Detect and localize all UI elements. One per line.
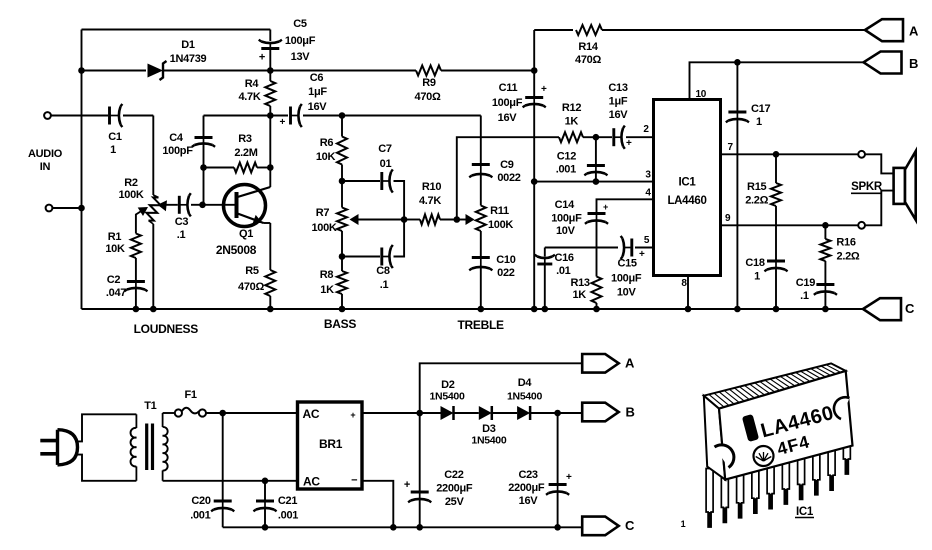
wire R7 to C8 node [341, 231, 343, 257]
svg-text:3: 3 [645, 170, 651, 181]
svg-text:R11: R11 [490, 205, 509, 217]
svg-text:4.7K: 4.7K [238, 91, 260, 103]
wire to R10 [404, 219, 420, 221]
wire C16 to bus [544, 264, 546, 309]
IC package pin 6 [782, 453, 789, 504]
capacitor C15 100uF 10V [624, 247, 632, 249]
wire C11 top [533, 30, 535, 96]
node BR1 minus junction [390, 524, 397, 531]
svg-text:5: 5 [644, 235, 650, 246]
wire R11 wiper [457, 219, 472, 221]
wire R2 loudness tap [136, 209, 145, 218]
capacitor C21 .001 [264, 501, 266, 509]
svg-text:10V: 10V [617, 287, 637, 299]
node rail3/R6 junction [339, 112, 346, 119]
svg-text:+: + [603, 202, 608, 212]
svg-text:R15: R15 [747, 181, 766, 193]
wire speaker bottom lead [865, 191, 894, 226]
wire R8 to bus [341, 294, 343, 309]
svg-text:1K: 1K [572, 289, 586, 301]
IC package right notch [834, 397, 850, 419]
svg-text:1: 1 [110, 144, 116, 156]
transformer T1 core [145, 424, 148, 471]
svg-text:C17: C17 [751, 103, 770, 115]
svg-text:C15: C15 [617, 258, 636, 270]
svg-text:+: + [566, 472, 572, 483]
node AUDIO IN top terminal [44, 112, 51, 119]
wire pin9 node to R16 [824, 225, 826, 239]
svg-text:1: 1 [754, 271, 760, 283]
svg-text:01: 01 [380, 158, 392, 170]
svg-text:R14: R14 [578, 41, 598, 53]
node output arrow B bottom [582, 403, 619, 422]
node R8/bus junction [339, 306, 346, 313]
capacitor C5 100uF 13V [269, 43, 271, 49]
capacitor C16 .01 [544, 258, 546, 265]
wire R13 to bus [596, 303, 598, 309]
svg-text:+: + [259, 52, 265, 64]
svg-text:100K: 100K [488, 219, 513, 231]
node rail2/C11 junction [531, 67, 538, 74]
transistor Q1 emitter arrow [252, 215, 262, 224]
svg-text:C20: C20 [191, 495, 210, 507]
wire R2 bottom to bus [152, 224, 154, 309]
svg-text:8: 8 [681, 278, 687, 289]
wire C22 to bottom rail [419, 500, 421, 528]
node speaker terminal top [858, 151, 865, 158]
svg-text:IC1: IC1 [679, 177, 697, 189]
svg-text:AC: AC [303, 407, 320, 421]
wire down to R2 [152, 116, 154, 196]
svg-text:R4: R4 [245, 78, 260, 90]
wire rail3 down to C4 [203, 116, 205, 137]
svg-text:C7: C7 [378, 143, 392, 155]
wire down to bus [533, 182, 535, 309]
svg-text:.1: .1 [380, 279, 389, 291]
capacitor C23 2200uF 16V [557, 485, 559, 493]
node AUDIO IN bottom terminal [46, 205, 53, 212]
node C23/bottom rail junction [554, 524, 561, 531]
node base junction [199, 202, 206, 209]
IC package pin 1 [706, 469, 713, 528]
node R3/collector junction [267, 164, 274, 171]
node C16/bus junction [542, 306, 549, 313]
wire C13 to IC pin 2 [626, 136, 654, 138]
wire D4 to arrow B [530, 412, 582, 414]
wire tap to R1 [135, 218, 137, 234]
svg-text:C: C [625, 518, 635, 533]
svg-text:F1: F1 [184, 389, 196, 401]
node R7 wiper arrow [350, 214, 359, 225]
wire rail3 right part [303, 115, 481, 117]
wire R10 to node [440, 219, 457, 221]
node rail2 left junction [78, 67, 85, 74]
wire node down to C22 [419, 413, 421, 491]
resistor R1 10K [131, 234, 141, 259]
resistor R5 470ohm [265, 270, 275, 296]
node R11 wiper arrow [466, 214, 475, 225]
capacitor C2 .047 [135, 282, 137, 289]
svg-text:100μF: 100μF [611, 273, 642, 285]
node C22/bottom rail junction [416, 524, 423, 531]
svg-text:100K: 100K [118, 189, 143, 201]
node speaker terminal bottom [858, 222, 865, 229]
IC package pin 10 [843, 441, 850, 474]
node input ground junction [78, 205, 85, 212]
svg-text:R2: R2 [124, 177, 138, 189]
svg-text:Q1: Q1 [239, 228, 253, 240]
resistor R3 2.2M [234, 163, 257, 173]
node bass top junction [339, 178, 346, 185]
node R2 wiper arrow [158, 200, 168, 211]
svg-text:7: 7 [728, 142, 734, 153]
wire top rail to C5 [269, 30, 271, 42]
capacitor C6 1uF 16V [291, 115, 300, 117]
svg-text:+: + [404, 479, 410, 491]
wire C19 to bus [824, 292, 826, 309]
label IC1 underline [795, 517, 814, 519]
wire [135, 466, 137, 480]
wire R2 wiper to C3 [160, 204, 178, 206]
svg-text:9: 9 [725, 213, 731, 224]
wire rail3 to C9 [480, 116, 482, 164]
wire pin 9 rail [721, 224, 859, 226]
svg-text:C9: C9 [500, 159, 514, 171]
wire speaker top lead [865, 154, 894, 173]
wire C2 to bus [135, 289, 137, 310]
svg-text:C19: C19 [796, 277, 815, 289]
svg-text:2: 2 [643, 124, 649, 135]
svg-text:C21: C21 [278, 495, 297, 507]
wire R4 to rail3 [269, 106, 271, 116]
wire R7 wiper [352, 219, 404, 221]
svg-text:C4: C4 [169, 132, 184, 144]
wire [149, 221, 154, 225]
wire pin 7 rail [721, 153, 859, 155]
capacitor C14 100uF 10V [596, 214, 598, 222]
svg-text:C10: C10 [496, 254, 515, 266]
svg-text:B: B [909, 56, 918, 71]
wire C12 to pin3 rail [595, 173, 597, 182]
svg-text:2N5008: 2N5008 [216, 243, 257, 257]
wire pin 10 to arrow B [690, 62, 864, 99]
wire R12 to C12 node [583, 136, 596, 138]
wire BR1 plus to D2 [362, 412, 441, 414]
svg-text:AUDIO: AUDIO [28, 148, 63, 160]
svg-text:25V: 25V [445, 496, 465, 508]
svg-text:100pF: 100pF [162, 145, 193, 157]
capacitor C7 01 [382, 180, 390, 182]
svg-text:C3: C3 [175, 216, 189, 228]
svg-text:10K: 10K [316, 151, 336, 163]
wire [162, 413, 164, 427]
svg-text:C: C [905, 301, 915, 316]
svg-text:R13: R13 [570, 277, 589, 289]
svg-text:C13: C13 [608, 82, 627, 94]
wire [153, 195, 158, 198]
resistor R14 470ohm [576, 25, 602, 35]
node R10/R11 junction [454, 216, 461, 223]
svg-text:.001: .001 [278, 510, 298, 522]
svg-text:C6: C6 [310, 72, 324, 84]
node C5/R4/D1 junction [267, 67, 274, 74]
svg-text:16V: 16V [498, 112, 518, 124]
op-amp IC1 LA4460 [654, 100, 721, 276]
svg-text:D1: D1 [181, 39, 195, 51]
wire to C17 [736, 62, 738, 110]
wire [162, 470, 164, 480]
wire D1 to C5/R4 node [163, 70, 270, 72]
bridge rectifier BR1 [298, 402, 363, 489]
svg-text:.1: .1 [177, 229, 186, 241]
wire D3 to D4 [492, 412, 517, 414]
IC package pin 8 [813, 447, 820, 495]
resistor R2 100K potentiometer [146, 197, 160, 220]
node C2/bus junction [133, 306, 140, 313]
wire input bottom to bus [52, 207, 81, 209]
node C23 junction [554, 410, 561, 417]
wire C4 to R3 node [203, 144, 205, 168]
svg-text:+: + [541, 84, 547, 95]
node R2 tap arrow [138, 207, 148, 216]
svg-text:1μF: 1μF [609, 96, 628, 108]
wire to C16 [544, 248, 546, 257]
wire plug to transformer primary bottom [77, 455, 137, 481]
wire C21 to bottom rail [264, 509, 266, 528]
capacitor C13 1uF 16V [614, 136, 622, 138]
wire node to node vertical [269, 116, 271, 168]
svg-text:100K: 100K [311, 222, 336, 234]
svg-text:C1: C1 [108, 131, 122, 143]
node output arrow C top section [863, 298, 901, 320]
resistor R6 10K [337, 137, 347, 165]
IC package left notch [715, 445, 734, 468]
svg-text:1: 1 [756, 116, 762, 128]
svg-text:BASS: BASS [324, 317, 356, 331]
node bass bottom junction [339, 253, 346, 260]
wire emitter corner [264, 222, 271, 224]
svg-text:10: 10 [696, 89, 707, 100]
wire node up to arrow A [420, 363, 583, 413]
svg-text:R8: R8 [320, 269, 334, 281]
svg-text:B: B [625, 405, 634, 420]
wire C5 to node [269, 49, 271, 71]
node R13/bus junction [593, 306, 600, 313]
svg-text:C18: C18 [745, 257, 764, 269]
wire to C13 [596, 136, 612, 138]
svg-text:D4: D4 [518, 377, 533, 389]
svg-text:D2: D2 [441, 379, 455, 391]
svg-text:4.7K: 4.7K [419, 195, 441, 207]
node output arrow A [865, 19, 903, 41]
svg-text:1N5400: 1N5400 [507, 391, 542, 403]
svg-text:LOUDNESS: LOUDNESS [134, 322, 199, 336]
wire top-left rail [82, 29, 271, 31]
wire left bus vertical [81, 30, 83, 310]
node C22/arrowA junction [416, 410, 423, 417]
wire C18 to bus [775, 269, 777, 310]
svg-text:1μF: 1μF [308, 86, 327, 98]
IC package pin 7 [798, 450, 805, 500]
wire pin 8 to bus [687, 276, 689, 310]
capacitor C1 [110, 115, 120, 117]
diode D1 1N4739 [148, 64, 164, 78]
svg-text:R6: R6 [320, 137, 334, 149]
svg-text:.1: .1 [800, 290, 809, 302]
svg-text:2.2M: 2.2M [234, 147, 257, 159]
wire C1 to R2 column [123, 115, 153, 117]
wire C3 to base node [191, 204, 203, 206]
transistor Q1 2N5008 [224, 185, 266, 227]
svg-text:.001: .001 [190, 510, 210, 522]
svg-text:.047: .047 [106, 287, 126, 299]
capacitor C22 2200uF 25V [419, 492, 421, 500]
svg-text:C12: C12 [557, 151, 576, 163]
wire node to C21 [264, 481, 266, 500]
wire C23 to bottom rail [557, 492, 559, 527]
IC package front face [719, 371, 853, 480]
wire rail2 to R9 [270, 70, 416, 72]
IC package logo [754, 446, 774, 466]
IC package top face [704, 363, 846, 408]
node C21/bottom rail junction [262, 524, 269, 531]
svg-text:2.2Ω: 2.2Ω [745, 195, 768, 207]
svg-text:+: + [279, 117, 285, 128]
svg-text:470Ω: 470Ω [415, 91, 441, 103]
wire F1 to BR1 [206, 412, 298, 414]
wire R5 to bus [269, 296, 271, 309]
wire R9 to C11 node [441, 70, 534, 72]
wire R16 to C19 [824, 261, 826, 283]
svg-text:022: 022 [497, 267, 515, 279]
wire R15 to C18 [775, 206, 777, 260]
wire pin 4 to C14 [597, 199, 654, 212]
svg-text:1K: 1K [320, 284, 334, 296]
wire C15 to IC pin 5 [635, 247, 654, 249]
node C19/bus junction [822, 306, 829, 313]
wire C4 node down to base node [203, 168, 205, 205]
svg-text:−: − [351, 475, 357, 487]
wire to R14 [534, 29, 573, 31]
speaker SPKR [894, 168, 905, 204]
capacitor C17 1 [736, 112, 738, 120]
wire R6 to C7 node [341, 165, 343, 182]
node R3 left junction [200, 164, 207, 171]
node output arrow A bottom [582, 354, 619, 373]
svg-text:R16: R16 [836, 237, 855, 249]
wire C20 to bottom rail [222, 509, 224, 528]
capacitor C4 100pF [203, 138, 205, 145]
node C12/pin3 junction [593, 178, 600, 185]
svg-text:470Ω: 470Ω [238, 281, 264, 293]
capacitor C3 .1 [179, 204, 188, 206]
svg-text:100μF: 100μF [285, 35, 316, 47]
wire node to C12 [595, 137, 597, 164]
svg-text:LA4460: LA4460 [667, 195, 706, 207]
capacitor C12 .001 [595, 166, 597, 173]
svg-text:R7: R7 [316, 207, 330, 219]
wire collector to R3 node [269, 168, 271, 188]
resistor R12 1K [559, 132, 583, 142]
wire to R3 [204, 167, 235, 169]
diode D4 1N5400 [517, 406, 530, 420]
resistor R13 1K [592, 277, 602, 304]
resistor R10 4.7K [420, 215, 440, 225]
svg-text:R10: R10 [422, 181, 441, 193]
svg-text:R3: R3 [238, 133, 252, 145]
wire bottom bus [82, 308, 864, 310]
node pin9/R16 junction [822, 222, 829, 229]
node C17/bus junction [734, 306, 741, 313]
node R7 wiper/R10 junction [401, 216, 408, 223]
svg-text:2200μF: 2200μF [508, 482, 545, 494]
wire node to C20 [222, 413, 224, 500]
diode D2 1N5400 [441, 406, 454, 420]
capacitor C18 1 [775, 261, 777, 269]
node R12/C13/C12 junction [593, 134, 600, 141]
wire C11 to pin3 rail [533, 105, 535, 182]
svg-text:0022: 0022 [497, 172, 520, 184]
wire tone output to R12 [457, 137, 559, 219]
node C21 junction [262, 478, 269, 485]
svg-text:C16: C16 [554, 252, 573, 264]
wire [135, 414, 137, 428]
wire to R7 [341, 181, 343, 208]
IC package pin 9 [828, 444, 835, 491]
wire BR1 minus to bottom rail [362, 481, 393, 528]
node bus junction C11 column [531, 306, 538, 313]
wire rail3 to R6 [341, 116, 343, 137]
svg-text:A: A [625, 356, 635, 371]
svg-text:100μF: 100μF [551, 213, 582, 225]
resistor R7 100K potentiometer [337, 208, 347, 232]
svg-text:AC: AC [303, 475, 320, 489]
node C11/pin3 junction [531, 178, 538, 185]
svg-text:1N5400: 1N5400 [430, 391, 465, 403]
wire base node to Q1 base [203, 204, 235, 206]
capacitor C9 0022 [480, 165, 482, 175]
wire node to R4 [269, 71, 271, 82]
resistor R11 100K potentiometer [476, 206, 486, 232]
svg-text:100μF: 100μF [492, 97, 523, 109]
svg-text:R9: R9 [422, 77, 436, 89]
wire D2 to D3 [454, 412, 479, 414]
fuse F1 [175, 409, 182, 416]
svg-text:T1: T1 [144, 400, 156, 412]
svg-text:C23: C23 [518, 469, 537, 481]
svg-text:IN: IN [40, 161, 51, 173]
node R5/bus junction [267, 306, 274, 313]
wire emitter to R5 [269, 223, 271, 270]
svg-text:2200μF: 2200μF [436, 483, 473, 495]
svg-text:1N5400: 1N5400 [471, 435, 506, 447]
svg-text:C22: C22 [444, 469, 463, 481]
svg-text:.001: .001 [556, 164, 576, 176]
svg-text:A: A [909, 24, 919, 39]
svg-text:C11: C11 [499, 82, 518, 94]
svg-text:SPKR: SPKR [851, 181, 883, 193]
svg-text:1N4739: 1N4739 [170, 53, 207, 65]
wire to C7 [342, 180, 380, 182]
wire plug to transformer primary top [77, 414, 137, 441]
resistor R16 2.2ohm [820, 239, 830, 261]
node pin10/C17 junction [734, 59, 741, 66]
wire C14 to R13 [596, 221, 598, 277]
wire R3 to collector node [257, 167, 270, 169]
wire to C8 [342, 256, 380, 258]
resistor R4 4.7K [265, 81, 275, 106]
wire input top to C1 [51, 115, 108, 117]
